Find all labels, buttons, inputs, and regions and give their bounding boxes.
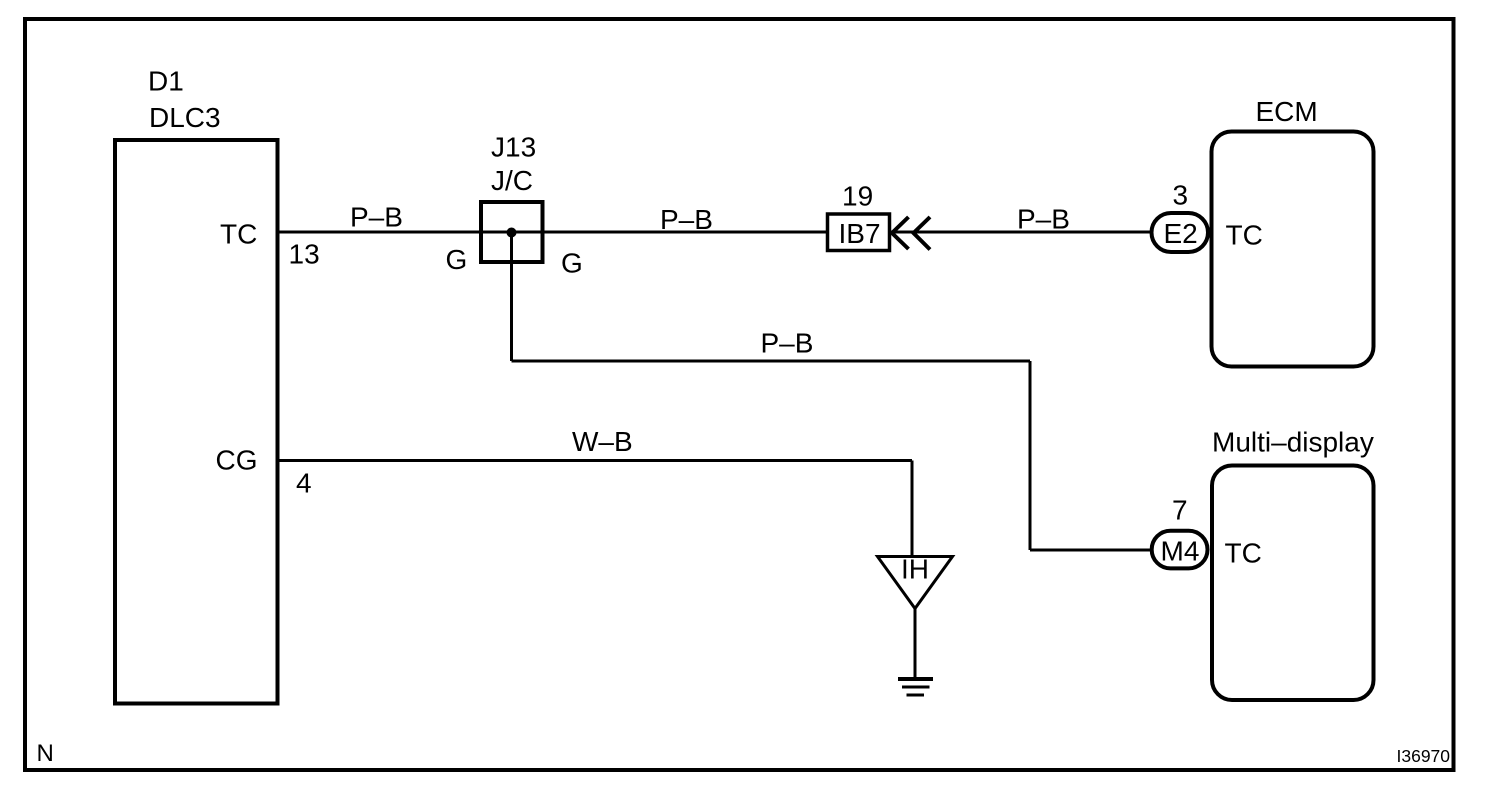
svg-text:19: 19 [842, 181, 873, 212]
svg-text:13: 13 [289, 239, 320, 270]
junction node dot [507, 228, 517, 238]
svg-text:M4: M4 [1161, 536, 1200, 567]
svg-text:J13: J13 [491, 132, 536, 163]
svg-text:P–B: P–B [350, 202, 403, 233]
ground symbol [898, 677, 933, 681]
wire from junction down [510, 233, 513, 362]
svg-text:I36970: I36970 [1397, 746, 1451, 766]
wire junction to M4 horizontal [512, 360, 1031, 363]
svg-text:TC: TC [1225, 538, 1262, 569]
wire CG to ground [279, 459, 912, 462]
wire down to M4 level [1029, 361, 1032, 550]
svg-text:G: G [446, 244, 468, 275]
connector E2 [1152, 213, 1209, 252]
svg-text:Multi–display: Multi–display [1212, 427, 1374, 458]
svg-text:IB7: IB7 [839, 218, 881, 249]
arrow chevron 1 [892, 217, 909, 249]
svg-text:IH: IH [901, 554, 929, 585]
wire TC to IB7 [279, 231, 827, 234]
splice IB7 box [828, 214, 890, 251]
svg-text:TC: TC [1226, 220, 1263, 251]
connector D1 DLC3 box [115, 140, 278, 704]
svg-text:P–B: P–B [660, 204, 713, 235]
svg-text:CG: CG [216, 445, 258, 476]
svg-text:G: G [561, 248, 583, 279]
svg-text:4: 4 [296, 468, 312, 499]
svg-text:D1: D1 [148, 66, 184, 97]
svg-text:P–B: P–B [1017, 204, 1070, 235]
junction J13 J/C box [481, 202, 543, 262]
ground triangle IH [878, 557, 953, 609]
svg-text:TC: TC [220, 219, 257, 250]
svg-text:ECM: ECM [1256, 96, 1318, 127]
svg-text:E2: E2 [1164, 218, 1198, 249]
wire triangle to ground [914, 609, 917, 680]
Multi-display box [1212, 466, 1374, 701]
svg-text:N: N [37, 740, 54, 767]
svg-text:3: 3 [1173, 180, 1189, 211]
wire to M4 [1030, 549, 1152, 552]
wire IB7 to E2 [891, 231, 1151, 234]
ECM box [1212, 132, 1374, 367]
svg-text:P–B: P–B [761, 328, 814, 359]
wire down to IH [911, 461, 914, 557]
svg-text:J/C: J/C [491, 165, 533, 196]
arrow chevron 2 [914, 217, 931, 250]
svg-text:W–B: W–B [572, 426, 633, 457]
connector M4 [1152, 531, 1208, 569]
svg-text:DLC3: DLC3 [149, 102, 221, 133]
svg-text:7: 7 [1172, 495, 1188, 526]
